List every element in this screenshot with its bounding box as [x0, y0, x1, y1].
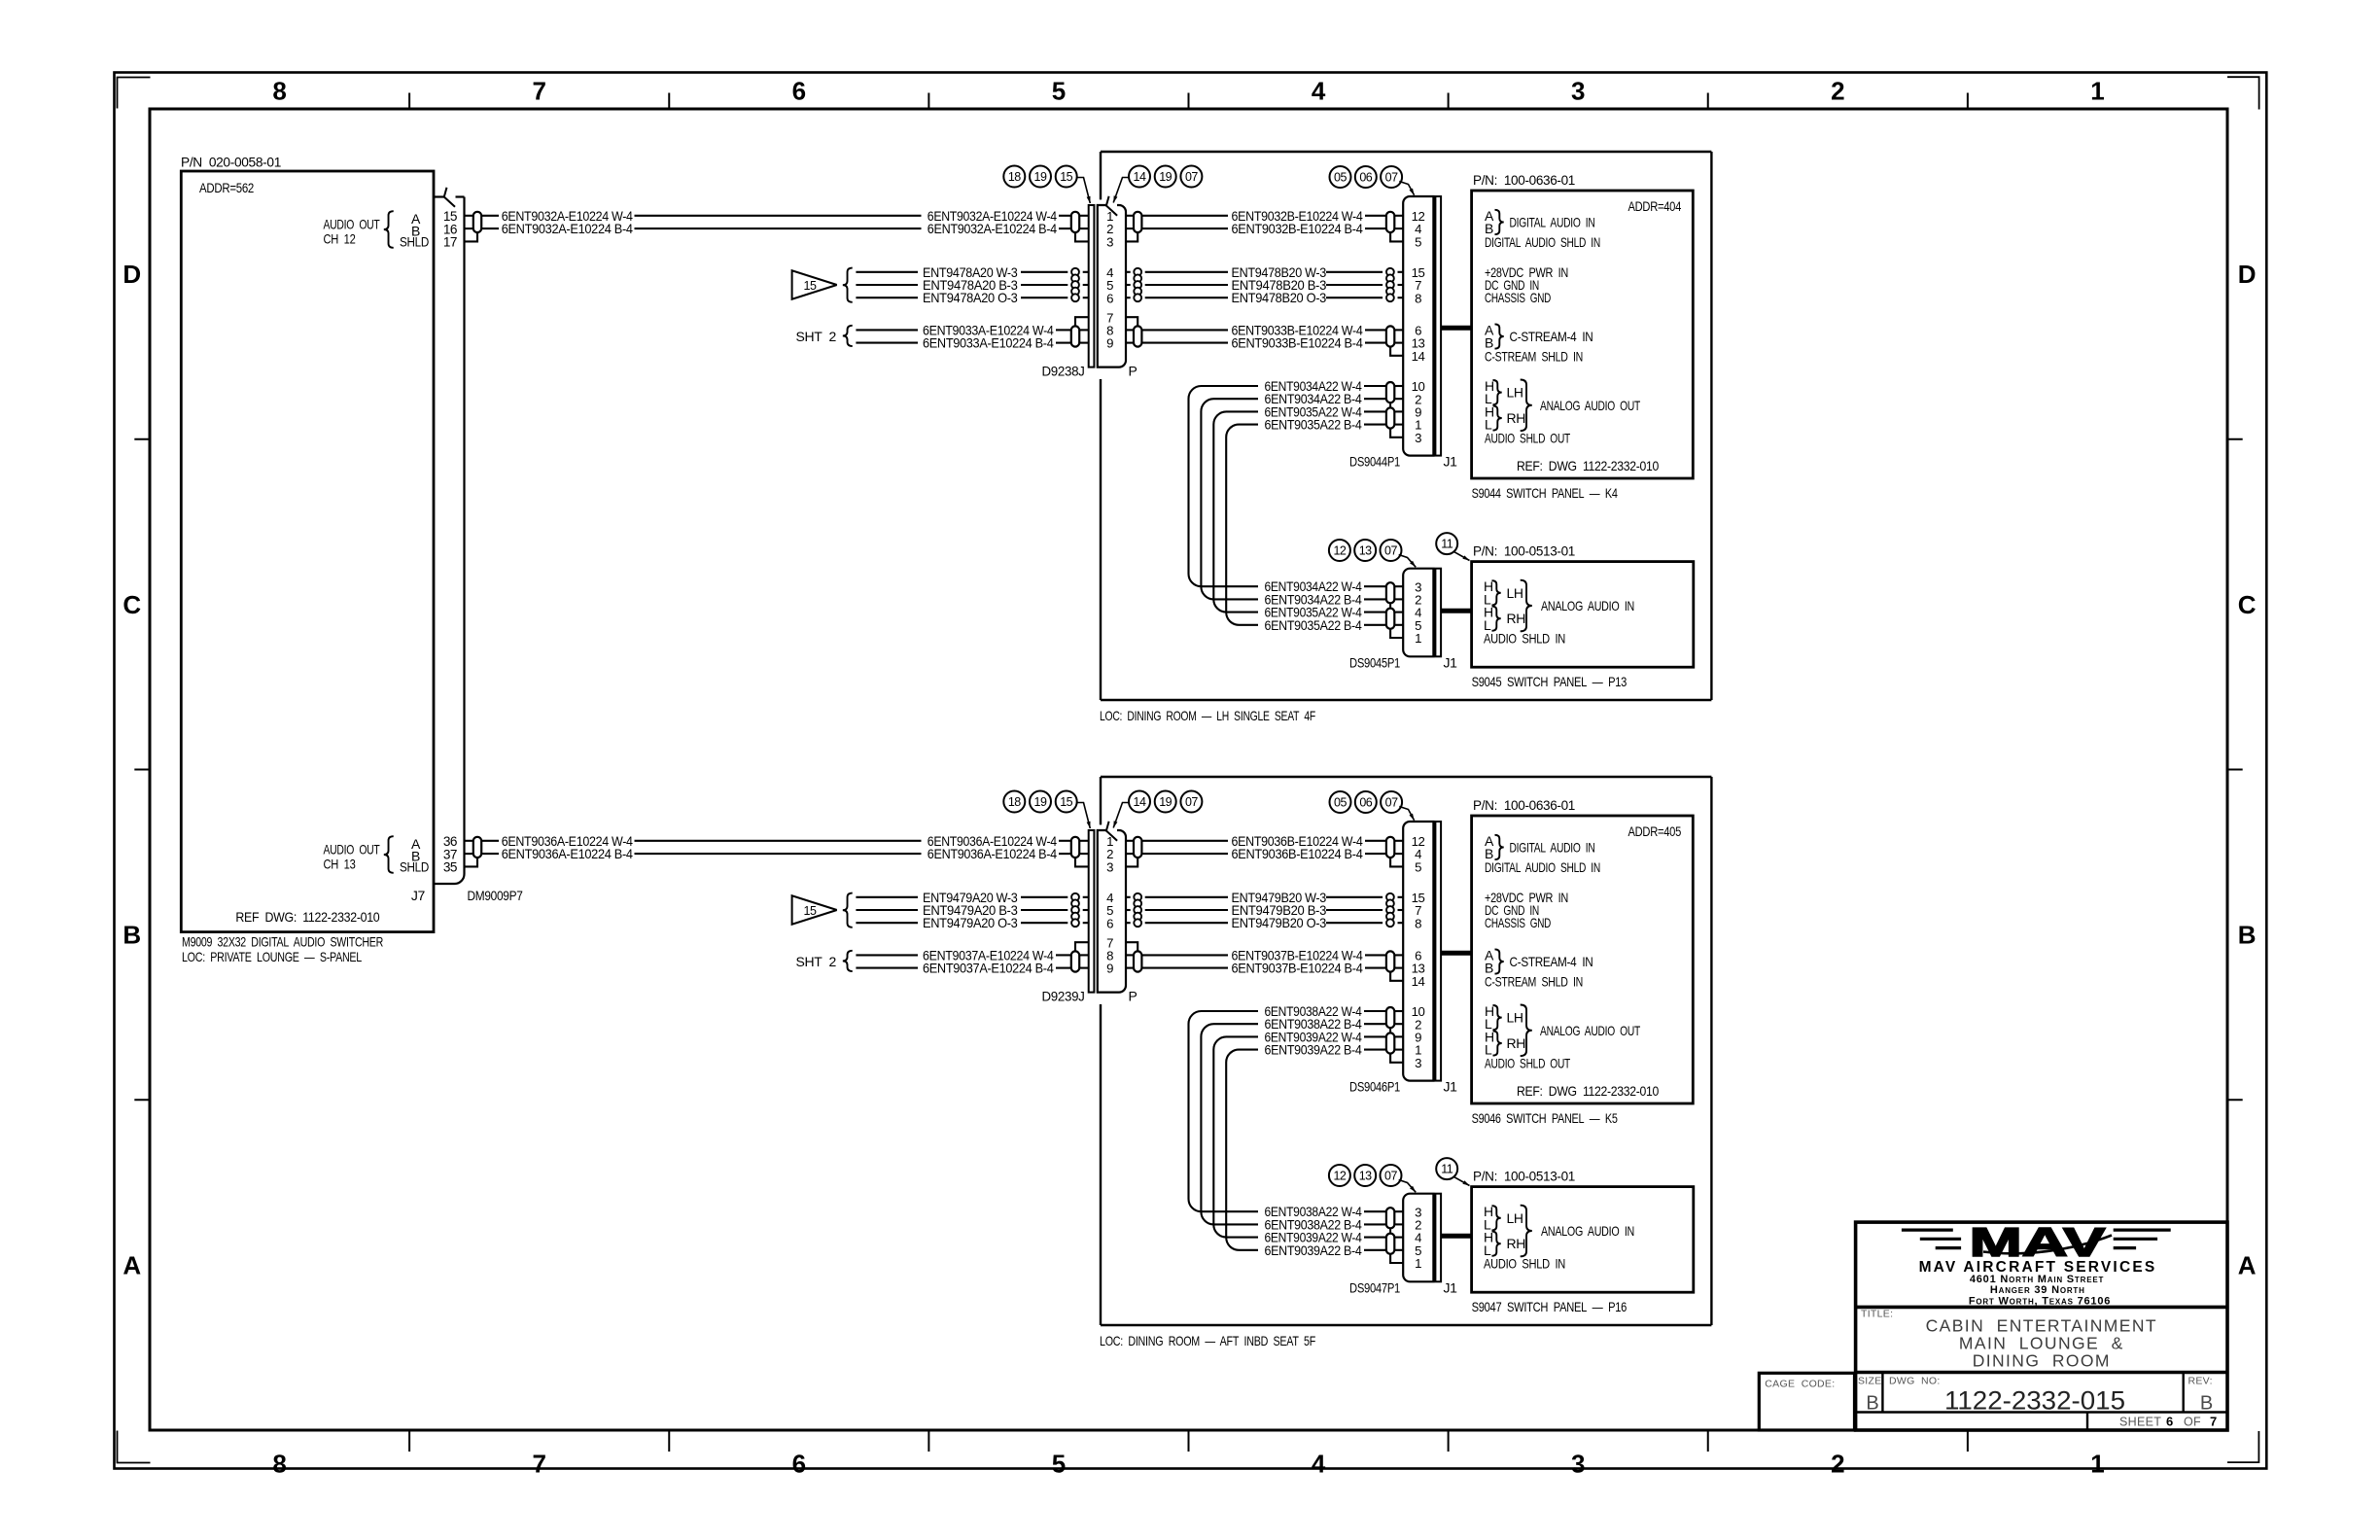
svg-text:ANALOG AUDIO OUT: ANALOG AUDIO OUT [1540, 398, 1641, 413]
svg-text:ADDR=405: ADDR=405 [1628, 823, 1682, 839]
svg-text:AUDIO SHLD IN: AUDIO SHLD IN [1484, 631, 1565, 647]
pin group AUDIO OUT CH 13 (pins A/B/SHLD) [324, 836, 430, 874]
shield capsule on 6ENT9032B-E10224 pair at DS9044P1 [1386, 212, 1394, 232]
svg-text:D9239J: D9239J [1042, 989, 1085, 1004]
svg-text:7: 7 [532, 1450, 545, 1479]
svg-text:SHLD: SHLD [400, 859, 429, 875]
wire ENT9478A20 W-3 (flag 15 to D9238J) [856, 264, 1089, 280]
wire 6ENT9032B-E10224 W-4 (D9238J to DS9044P1) [1126, 208, 1403, 224]
svg-text:SIZE: SIZE [1858, 1376, 1882, 1387]
connector DS9044P1 / J1 [1349, 196, 1457, 470]
svg-text:DS9046P1: DS9046P1 [1349, 1079, 1400, 1095]
shield capsule on 6ENT9037A-E10224 pair at D9239J [1071, 951, 1079, 971]
svg-text:06: 06 [1359, 796, 1372, 810]
connector D9239J / P [1042, 822, 1137, 1004]
flag note 15 triangle [792, 893, 853, 927]
wire ENT9479A20 O-3 (flag 15 to D9239J) [856, 915, 1089, 930]
wire ENT9478A20 O-3 (flag 15 to D9238J) [856, 290, 1089, 305]
svg-text:14: 14 [1412, 974, 1425, 989]
svg-text:05: 05 [1334, 171, 1347, 185]
svg-text:AUDIO SHLD OUT: AUDIO SHLD OUT [1485, 430, 1571, 445]
svg-text:5: 5 [1052, 1450, 1066, 1479]
svg-text:S9045 SWITCH PANEL — P13: S9045 SWITCH PANEL — P13 [1472, 674, 1627, 689]
shield drain to DS9045P1 pin 1 [1390, 629, 1403, 638]
svg-text:17: 17 [443, 234, 457, 249]
shield drain to DS9046P1 pin 5 [1390, 857, 1403, 866]
svg-text:6: 6 [2166, 1415, 2173, 1429]
svg-text:D9238J: D9238J [1042, 364, 1085, 379]
shield capsules on analog pairs at DS9045P1 [1386, 582, 1394, 629]
svg-text:LH: LH [1507, 1210, 1523, 1226]
svg-text:LOC: PRIVATE LOUNGE — S-PA: LOC: PRIVATE LOUNGE — S-PANEL [182, 949, 362, 964]
shield drain to DS9044P1 pin 3 [1390, 429, 1403, 437]
wire 6ENT9035A22 B-4 (DS9044P1 pins to DS9045P1) [1226, 417, 1403, 633]
shield capsules on analog pairs at DS9046P1 [1386, 1007, 1394, 1054]
svg-text:19: 19 [1159, 795, 1172, 809]
wire ENT9478A20 B-3 (flag 15 to D9238J) [856, 277, 1089, 293]
svg-text:DS9047P1: DS9047P1 [1349, 1280, 1400, 1296]
shield capsule on 6ENT9036B-E10224 pair at DS9046P1 [1386, 837, 1394, 857]
svg-text:SHLD: SHLD [400, 234, 429, 250]
svg-text:6ENT9033A-E10224 B-4: 6ENT9033A-E10224 B-4 [923, 335, 1054, 351]
svg-text:19: 19 [1159, 170, 1172, 184]
svg-text:7: 7 [532, 76, 545, 105]
svg-text:DIGITAL AUDIO IN: DIGITAL AUDIO IN [1510, 839, 1595, 855]
svg-text:19: 19 [1034, 795, 1047, 809]
wire ENT9479B20 B-3 (D9239J to DS9046P1) [1126, 902, 1403, 918]
wire 6ENT9036A-E10224 W-4 (switcher to D9239J) [465, 833, 1089, 849]
wire DS9044P1 J1 to switch panel [1441, 326, 1471, 331]
svg-text:7: 7 [2210, 1415, 2217, 1429]
svg-text:CH 12: CH 12 [324, 230, 356, 246]
svg-text:DIGITAL AUDIO SHLD IN: DIGITAL AUDIO SHLD IN [1485, 859, 1600, 875]
wire DS9045P1 J1 to switch panel [1441, 609, 1471, 613]
wire 6ENT9032B-E10224 B-4 (D9238J to DS9044P1) [1126, 221, 1403, 236]
wire 6ENT9039A22 B-4 (DS9046P1 pins to DS9047P1) [1226, 1042, 1403, 1258]
svg-text:11: 11 [1441, 538, 1453, 551]
svg-text:06: 06 [1359, 171, 1372, 185]
svg-text:8: 8 [1415, 916, 1421, 930]
wire ENT9479A20 W-3 (flag 15 to D9239J) [856, 890, 1089, 905]
svg-text:AUDIO OUT: AUDIO OUT [324, 216, 381, 231]
shield drain to D9239J pin 7 right side [1126, 942, 1137, 951]
svg-text:LOC: DINING ROOM — LH SIN: LOC: DINING ROOM — LH SINGLE SEAT 4F [1100, 708, 1315, 723]
svg-text:SHT 2: SHT 2 [796, 329, 837, 344]
svg-text:RH: RH [1507, 1236, 1526, 1251]
svg-text:P: P [1129, 989, 1137, 1004]
twisted-triple symbol at D9239J left [1071, 893, 1079, 927]
wire 6ENT9039A22 W-4 (DS9046P1 pins to DS9047P1) [1213, 1029, 1403, 1244]
svg-text:P/N: 100-0513-01: P/N: 100-0513-01 [1473, 543, 1576, 559]
wire ENT9478B20 W-3 (D9238J to DS9044P1) [1126, 264, 1403, 280]
svg-text:ANALOG AUDIO OUT: ANALOG AUDIO OUT [1540, 1023, 1641, 1038]
svg-text:AUDIO SHLD OUT: AUDIO SHLD OUT [1485, 1055, 1571, 1070]
svg-text:DINING ROOM: DINING ROOM [1973, 1351, 2111, 1371]
svg-text:B: B [122, 921, 141, 950]
svg-text:19: 19 [1034, 170, 1047, 184]
svg-text:REF DWG: 1122-2332-010: REF DWG: 1122-2332-010 [235, 909, 379, 925]
svg-text:J1: J1 [1444, 1280, 1458, 1296]
connector DS9046P1 / J1 [1349, 822, 1457, 1095]
svg-text:RH: RH [1507, 410, 1526, 426]
svg-text:3: 3 [1415, 1056, 1421, 1070]
switch panel S9045 [1472, 543, 1694, 690]
svg-text:LH: LH [1507, 385, 1523, 401]
off-sheet reference SHT 2 [796, 951, 853, 971]
svg-text:3: 3 [1415, 431, 1421, 445]
switch panel S9047 [1472, 1169, 1694, 1315]
svg-text:6ENT9032A-E10224 B-4: 6ENT9032A-E10224 B-4 [927, 221, 1057, 236]
wire DS9047P1 J1 to switch panel [1441, 1234, 1471, 1239]
svg-text:C-STREAM-4 IN: C-STREAM-4 IN [1510, 954, 1593, 969]
callout circles 05 06 07 [1330, 791, 1415, 821]
shield drain to switcher SHLD pin [465, 857, 478, 866]
svg-text:07: 07 [1185, 170, 1198, 184]
svg-text:S9047 SWITCH PANEL — P16: S9047 SWITCH PANEL — P16 [1472, 1299, 1627, 1314]
svg-text:6: 6 [1106, 291, 1113, 305]
svg-text:15: 15 [804, 904, 817, 918]
wire 6ENT9034A22 B-4 (DS9044P1 pins to DS9045P1) [1201, 391, 1403, 607]
svg-text:ANALOG AUDIO IN: ANALOG AUDIO IN [1541, 598, 1634, 613]
svg-text:07: 07 [1384, 544, 1397, 558]
shield drain to DS9046P1 pin 14 [1390, 972, 1403, 981]
svg-text:6ENT9035A22 B-4: 6ENT9035A22 B-4 [1265, 417, 1362, 433]
callout circles 14 19 07 [1113, 791, 1202, 828]
svg-text:9: 9 [1106, 336, 1113, 351]
svg-text:1: 1 [1415, 631, 1421, 646]
wire 6ENT9036A-E10224 B-4 (switcher to D9239J) [465, 846, 1089, 861]
shield capsule on 6ENT9037B-E10224 pair right of connector [1134, 951, 1141, 971]
svg-text:ADDR=562: ADDR=562 [199, 180, 254, 195]
flag note 15 triangle [792, 268, 853, 302]
callout circle 11 [1436, 533, 1469, 560]
MAV logo [1902, 1219, 2171, 1307]
off-sheet reference SHT 2 [796, 326, 853, 346]
svg-text:CHASSIS GND: CHASSIS GND [1485, 290, 1551, 305]
svg-text:13: 13 [1359, 544, 1372, 558]
callout circles 14 19 07 [1113, 166, 1202, 203]
svg-text:LH: LH [1507, 1010, 1523, 1026]
svg-text:8: 8 [272, 76, 286, 105]
svg-text:4: 4 [1312, 1450, 1326, 1479]
wire ENT9479A20 B-3 (flag 15 to D9239J) [856, 902, 1089, 918]
twisted-triple symbol right of D9238J [1134, 268, 1141, 301]
shield capsule on 6ENT9032B-E10224 pair right of connector [1134, 212, 1141, 232]
shield drain to DS9044P1 pin 14 [1390, 347, 1403, 356]
svg-text:12: 12 [1333, 544, 1346, 558]
IC M9009 32X32 digital audio switcher [181, 155, 434, 964]
svg-text:1: 1 [2090, 76, 2104, 105]
connector J7 / DM9009P7 on M9009 [411, 188, 523, 903]
svg-text:RH: RH [1507, 1035, 1526, 1051]
svg-text:6ENT9039A22 B-4: 6ENT9039A22 B-4 [1265, 1242, 1362, 1258]
shield drain to switcher SHLD pin [465, 232, 478, 241]
shield capsule on 6ENT9036A-E10224 pair at D9239J [1071, 837, 1079, 857]
svg-text:RH: RH [1507, 611, 1526, 626]
svg-text:P/N: 100-0636-01: P/N: 100-0636-01 [1473, 797, 1576, 813]
twisted-triple symbol right of D9239J [1134, 893, 1141, 927]
svg-text:J1: J1 [1444, 655, 1458, 671]
svg-text:ENT9478A20 O-3: ENT9478A20 O-3 [923, 290, 1018, 305]
svg-text:9: 9 [1106, 962, 1113, 976]
svg-text:LH: LH [1507, 585, 1523, 601]
shield capsule on 6ENT9032A-E10224 pair at D9238J [1071, 212, 1079, 232]
wire 6ENT9037A-E10224 B-4 (SHT 2 to D9239J) [856, 961, 1089, 976]
svg-text:CHASSIS GND: CHASSIS GND [1485, 915, 1551, 930]
wire DS9046P1 J1 to switch panel [1441, 951, 1471, 956]
svg-text:B: B [2238, 921, 2257, 950]
svg-text:DS9045P1: DS9045P1 [1349, 655, 1400, 671]
twisted-triple symbol at DS9046P1 [1386, 893, 1394, 927]
svg-text:14: 14 [1134, 795, 1146, 809]
shield drain to DS9044P1 pin 5 [1390, 232, 1403, 241]
svg-text:C-STREAM SHLD IN: C-STREAM SHLD IN [1485, 348, 1583, 364]
callout circles 12 13 07 [1329, 1165, 1416, 1192]
svg-text:DS9044P1: DS9044P1 [1349, 454, 1400, 470]
svg-text:C-STREAM SHLD IN: C-STREAM SHLD IN [1485, 973, 1583, 989]
shield capsule on 6ENT9033B-E10224 pair right of connector [1134, 326, 1141, 346]
svg-text:P/N 020-0058-01: P/N 020-0058-01 [181, 155, 282, 170]
svg-text:13: 13 [1359, 1170, 1372, 1183]
wire 6ENT9032A-E10224 W-4 (switcher to D9238J) [465, 208, 1089, 224]
svg-text:DIGITAL AUDIO IN: DIGITAL AUDIO IN [1510, 214, 1595, 229]
svg-text:4: 4 [1312, 76, 1326, 105]
svg-text:CH 13: CH 13 [324, 856, 356, 871]
shield drain to D9238J pin 3 right side [1126, 232, 1137, 241]
svg-text:MAIN LOUNGE &: MAIN LOUNGE & [1959, 1334, 2124, 1353]
svg-text:DWG NO:: DWG NO: [1889, 1376, 1941, 1387]
svg-text:1: 1 [1415, 1256, 1421, 1271]
wire 6ENT9033A-E10224 W-4 (SHT 2 to D9238J) [856, 322, 1089, 337]
callout circles 12 13 07 [1329, 540, 1416, 567]
wire 6ENT9037B-E10224 W-4 (D9239J to DS9046P1) [1126, 947, 1403, 962]
wire 6ENT9034A22 W-4 (DS9044P1 pins to DS9045P1) [1189, 378, 1404, 594]
svg-text:DIGITAL AUDIO SHLD IN: DIGITAL AUDIO SHLD IN [1485, 234, 1600, 250]
svg-text:Fort Worth, Texas 76106: Fort Worth, Texas 76106 [1969, 1295, 2111, 1307]
wire 6ENT9032A-E10224 B-4 (switcher to D9238J) [465, 221, 1089, 236]
wire 6ENT9037B-E10224 B-4 (D9239J to DS9046P1) [1126, 961, 1403, 976]
connector DS9045P1 / J1 [1349, 569, 1457, 671]
wire 6ENT9038A22 W-4 (DS9046P1 pins to DS9047P1) [1189, 1003, 1404, 1219]
svg-text:P: P [1129, 364, 1137, 379]
shield capsules on analog pairs at DS9047P1 [1386, 1207, 1394, 1254]
wire 6ENT9035A22 W-4 (DS9044P1 pins to DS9045P1) [1213, 403, 1403, 619]
enclosure box LOC: DINING&#160; ROOM&#160; &#8212;&#160; AFT&#160; INBD&#160; SEAT&#160; 5F [1100, 777, 1711, 1348]
svg-text:SHT 2: SHT 2 [796, 954, 837, 969]
svg-text:8: 8 [272, 1450, 286, 1479]
wire ENT9479B20 O-3 (D9239J to DS9046P1) [1126, 915, 1403, 930]
shield drain to D9239J pin 3 [1075, 857, 1089, 866]
svg-text:ADDR=404: ADDR=404 [1628, 198, 1682, 214]
svg-text:3: 3 [1571, 76, 1585, 105]
svg-text:A: A [2238, 1250, 2257, 1279]
svg-text:2: 2 [1831, 76, 1844, 105]
wire ENT9479B20 W-3 (D9239J to DS9046P1) [1126, 890, 1403, 905]
svg-text:6ENT9037B-E10224 B-4: 6ENT9037B-E10224 B-4 [1232, 961, 1364, 976]
svg-text:J1: J1 [1444, 1079, 1458, 1095]
shield capsule on 6ENT9033B-E10224 pair at DS9044P1 [1386, 326, 1394, 346]
svg-text:07: 07 [1385, 171, 1398, 185]
svg-text:8: 8 [1415, 291, 1421, 305]
svg-text:ENT9479B20 O-3: ENT9479B20 O-3 [1232, 915, 1327, 930]
svg-text:35: 35 [443, 859, 457, 874]
svg-text:6ENT9036A-E10224 B-4: 6ENT9036A-E10224 B-4 [502, 846, 634, 861]
svg-text:Hanger 39 North: Hanger 39 North [1990, 1284, 2085, 1296]
svg-text:SHEET: SHEET [2119, 1416, 2161, 1429]
svg-text:C: C [122, 590, 141, 619]
svg-text:3: 3 [1106, 234, 1113, 249]
svg-text:P/N: 100-0636-01: P/N: 100-0636-01 [1473, 172, 1576, 188]
svg-text:6: 6 [792, 76, 806, 105]
svg-text:6: 6 [1106, 916, 1113, 930]
switch panel S9044 [1472, 172, 1694, 501]
enclosure box LOC: DINING&#160; ROOM&#160; &#8212;&#160; LH&#160; SINGLE&#160; SEAT&#160; 4F [1100, 152, 1711, 723]
shield drain to DS9046P1 pin 3 [1390, 1054, 1403, 1063]
svg-text:A: A [122, 1250, 141, 1279]
svg-text:S9044 SWITCH PANEL — K4: S9044 SWITCH PANEL — K4 [1472, 485, 1618, 501]
svg-text:14: 14 [1412, 349, 1425, 364]
twisted-triple symbol at DS9044P1 [1386, 268, 1394, 301]
svg-text:3: 3 [1571, 1450, 1585, 1479]
title block [1759, 1222, 2227, 1430]
switch panel S9046 [1472, 797, 1694, 1126]
shield drain to D9239J pin 3 right side [1126, 857, 1137, 866]
svg-text:M9009 32X32 DIGITAL AUDIO: M9009 32X32 DIGITAL AUDIO SWITCHER [182, 934, 383, 950]
svg-text:REF: DWG 1122-2332-010: REF: DWG 1122-2332-010 [1517, 1083, 1659, 1099]
svg-text:B: B [2200, 1393, 2213, 1415]
svg-text:CABIN ENTERTAINMENT: CABIN ENTERTAINMENT [1926, 1316, 2157, 1336]
wire 6ENT9033A-E10224 B-4 (SHT 2 to D9238J) [856, 335, 1089, 351]
wire 6ENT9038A22 B-4 (DS9046P1 pins to DS9047P1) [1201, 1016, 1403, 1232]
svg-text:S9046 SWITCH PANEL — K5: S9046 SWITCH PANEL — K5 [1472, 1110, 1618, 1126]
svg-text:B: B [1866, 1393, 1878, 1415]
shield capsule on 6ENT9037B-E10224 pair at DS9046P1 [1386, 951, 1394, 971]
shield drain to D9238J pin 7 right side [1126, 317, 1137, 326]
svg-text:C-STREAM-4 IN: C-STREAM-4 IN [1510, 329, 1593, 344]
svg-text:AUDIO SHLD IN: AUDIO SHLD IN [1484, 1256, 1565, 1272]
svg-text:6: 6 [792, 1450, 806, 1479]
wire 6ENT9037A-E10224 W-4 (SHT 2 to D9239J) [856, 947, 1089, 962]
callout circles 18 19 15 [1003, 166, 1090, 204]
svg-text:REV:: REV: [2188, 1376, 2213, 1387]
svg-text:D: D [122, 260, 141, 289]
svg-text:ENT9478B20 O-3: ENT9478B20 O-3 [1232, 290, 1327, 305]
shield capsules on analog pairs at DS9044P1 [1386, 382, 1394, 429]
svg-text:6ENT9032A-E10224 B-4: 6ENT9032A-E10224 B-4 [502, 221, 634, 236]
shield drain to D9239J pin 7 [1075, 942, 1089, 951]
svg-text:6ENT9039A22 B-4: 6ENT9039A22 B-4 [1265, 1042, 1362, 1058]
svg-text:D: D [2238, 260, 2257, 289]
shield capsule on 6ENT9033A-E10224 pair at D9238J [1071, 326, 1079, 346]
svg-text:5: 5 [1052, 76, 1066, 105]
svg-text:11: 11 [1441, 1163, 1453, 1176]
svg-text:OF: OF [2184, 1416, 2201, 1429]
connector D9238J / P [1042, 196, 1137, 379]
wire 6ENT9036B-E10224 B-4 (D9239J to DS9046P1) [1126, 846, 1403, 861]
shield capsule on 6ENT9036A-E10224 pair at switcher [473, 837, 481, 857]
svg-text:DM9009P7: DM9009P7 [468, 888, 523, 903]
svg-text:18: 18 [1008, 795, 1021, 809]
wire 6ENT9033B-E10224 W-4 (D9238J to DS9044P1) [1126, 322, 1403, 337]
svg-text:J7: J7 [411, 888, 426, 903]
drawing number block [1765, 1376, 2217, 1429]
svg-text:LOC: DINING ROOM — AFT IN: LOC: DINING ROOM — AFT INBD SEAT 5F [1100, 1333, 1315, 1348]
svg-text:AUDIO OUT: AUDIO OUT [324, 841, 381, 857]
callout circle 11 [1436, 1158, 1469, 1185]
title text [1861, 1309, 2157, 1371]
svg-text:6ENT9035A22 B-4: 6ENT9035A22 B-4 [1265, 617, 1362, 633]
svg-text:5: 5 [1415, 859, 1421, 874]
pin group AUDIO OUT CH 12 (pins A/B/SHLD) [324, 211, 430, 249]
callout circles 05 06 07 [1330, 166, 1415, 195]
shield drain to D9238J pin 3 [1075, 232, 1089, 241]
svg-text:14: 14 [1134, 170, 1146, 184]
svg-text:07: 07 [1385, 796, 1398, 810]
svg-text:1122-2332-015: 1122-2332-015 [1944, 1386, 2125, 1416]
twisted-triple symbol at D9238J left [1071, 268, 1079, 301]
svg-text:REF: DWG 1122-2332-010: REF: DWG 1122-2332-010 [1517, 458, 1659, 473]
svg-text:6ENT9033B-E10224 B-4: 6ENT9033B-E10224 B-4 [1232, 335, 1364, 351]
shield capsule on 6ENT9032A-E10224 pair at switcher [473, 212, 481, 232]
svg-text:6ENT9032B-E10224 B-4: 6ENT9032B-E10224 B-4 [1232, 221, 1364, 236]
svg-text:07: 07 [1384, 1170, 1397, 1183]
svg-text:2: 2 [1831, 1450, 1844, 1479]
shield drain to D9238J pin 7 [1075, 317, 1089, 326]
svg-text:12: 12 [1333, 1170, 1346, 1183]
svg-text:15: 15 [804, 279, 817, 293]
svg-text:5: 5 [1415, 234, 1421, 249]
svg-text:6ENT9036A-E10224 B-4: 6ENT9036A-E10224 B-4 [927, 846, 1057, 861]
svg-text:C: C [2238, 590, 2257, 619]
svg-text:TITLE:: TITLE: [1861, 1309, 1893, 1320]
svg-text:ENT9479A20 O-3: ENT9479A20 O-3 [923, 915, 1018, 930]
svg-text:J1: J1 [1444, 454, 1458, 470]
svg-text:ANALOG AUDIO IN: ANALOG AUDIO IN [1541, 1223, 1634, 1239]
svg-text:1: 1 [2090, 1450, 2104, 1479]
wire ENT9478B20 B-3 (D9238J to DS9044P1) [1126, 277, 1403, 293]
svg-text:05: 05 [1334, 796, 1347, 810]
svg-text:15: 15 [1060, 170, 1072, 184]
svg-text:4601 North Main Street: 4601 North Main Street [1970, 1274, 2104, 1285]
wire 6ENT9033B-E10224 B-4 (D9238J to DS9044P1) [1126, 335, 1403, 351]
svg-text:P/N: 100-0513-01: P/N: 100-0513-01 [1473, 1169, 1576, 1184]
callout circles 18 19 15 [1003, 791, 1090, 829]
wire 6ENT9036B-E10224 W-4 (D9239J to DS9046P1) [1126, 833, 1403, 849]
svg-text:6ENT9037A-E10224 B-4: 6ENT9037A-E10224 B-4 [923, 961, 1054, 976]
shield capsule on 6ENT9036B-E10224 pair right of connector [1134, 837, 1141, 857]
shield drain to DS9047P1 pin 1 [1390, 1254, 1403, 1263]
svg-text:07: 07 [1185, 795, 1198, 809]
svg-text:15: 15 [1060, 795, 1072, 809]
svg-text:18: 18 [1008, 170, 1021, 184]
connector DS9047P1 / J1 [1349, 1194, 1457, 1296]
svg-text:CAGE CODE:: CAGE CODE: [1765, 1379, 1835, 1390]
svg-text:6ENT9036B-E10224 B-4: 6ENT9036B-E10224 B-4 [1232, 846, 1364, 861]
wire ENT9478B20 O-3 (D9238J to DS9044P1) [1126, 290, 1403, 305]
svg-text:3: 3 [1106, 859, 1113, 874]
